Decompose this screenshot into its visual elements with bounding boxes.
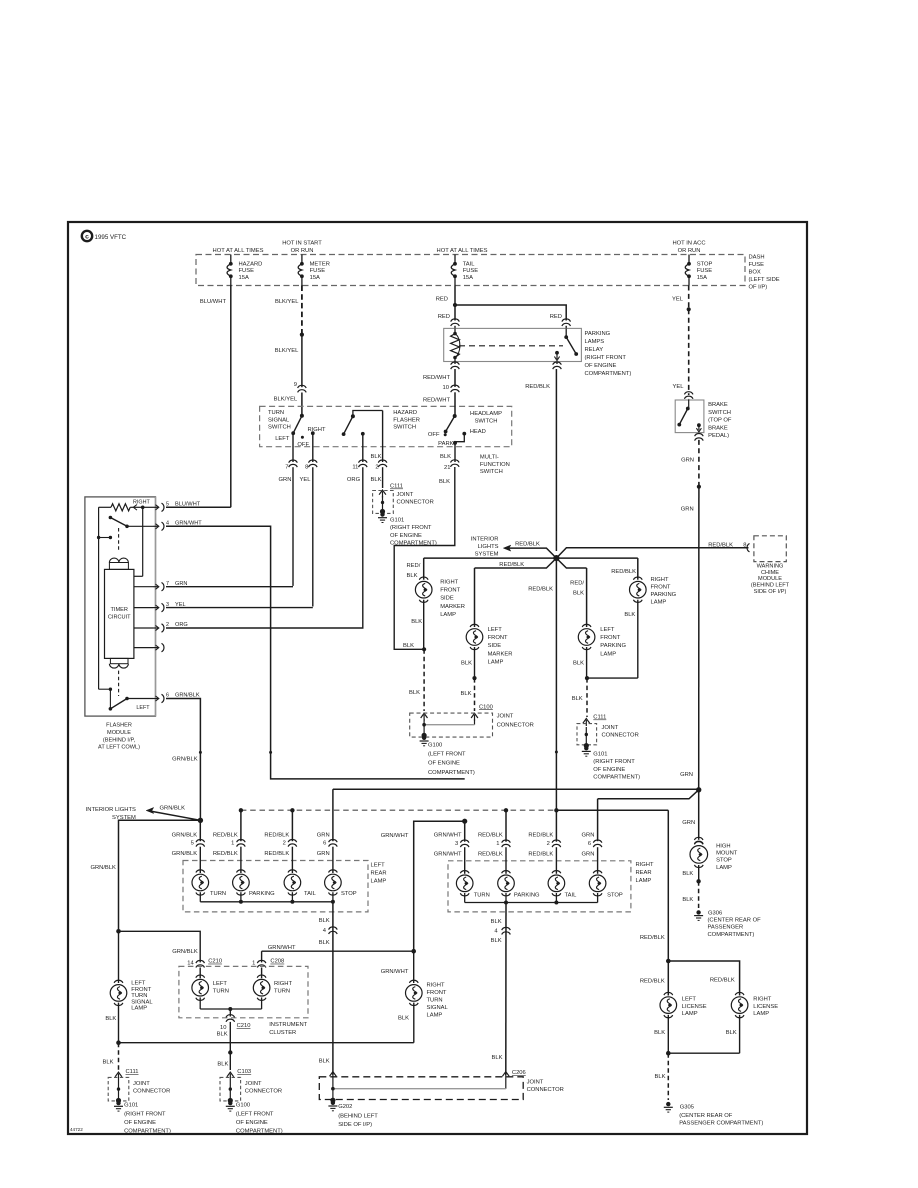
svg-text:LEFT: LEFT	[136, 705, 150, 711]
svg-text:FRONT: FRONT	[600, 635, 620, 641]
svg-text:GRN: GRN	[681, 458, 694, 464]
svg-text:BLK: BLK	[439, 479, 450, 485]
svg-text:CONNECTOR: CONNECTOR	[602, 733, 639, 739]
svg-text:FRONT: FRONT	[427, 990, 447, 996]
svg-text:BLK: BLK	[371, 454, 382, 460]
svg-text:RIGHT: RIGHT	[753, 997, 771, 1003]
svg-text:RED/BLK: RED/BLK	[611, 569, 636, 575]
svg-text:BLK: BLK	[491, 938, 502, 944]
svg-text:CLUSTER: CLUSTER	[269, 1030, 296, 1036]
svg-text:JOINT: JOINT	[497, 714, 514, 720]
svg-text:TURN: TURN	[131, 993, 147, 999]
svg-text:GRN/BLK: GRN/BLK	[172, 949, 198, 955]
svg-text:6: 6	[588, 841, 591, 847]
svg-text:TURN: TURN	[210, 891, 226, 897]
svg-text:LAMP: LAMP	[440, 612, 456, 618]
svg-text:LEFT: LEFT	[600, 627, 615, 633]
svg-text:FLASHER: FLASHER	[393, 417, 420, 423]
svg-text:GRN/WHT: GRN/WHT	[381, 969, 409, 975]
svg-text:LAMP: LAMP	[636, 878, 652, 884]
svg-text:BLK: BLK	[573, 661, 584, 667]
svg-text:BLK: BLK	[573, 591, 584, 597]
svg-text:BLK: BLK	[319, 918, 330, 924]
svg-text:MODULE: MODULE	[107, 730, 131, 736]
svg-text:SIGNAL: SIGNAL	[268, 417, 290, 423]
svg-text:BOX: BOX	[749, 270, 761, 276]
svg-text:TAIL: TAIL	[565, 893, 578, 899]
svg-text:(LEFT FRONT: (LEFT FRONT	[236, 1112, 274, 1118]
svg-text:JOINT: JOINT	[245, 1081, 262, 1087]
svg-text:BLK/YEL: BLK/YEL	[275, 299, 299, 305]
svg-text:RED/BLK: RED/BLK	[640, 935, 665, 941]
svg-text:FUSE: FUSE	[239, 268, 255, 274]
svg-text:RED/BLK: RED/BLK	[478, 833, 503, 839]
svg-text:LAMP: LAMP	[600, 651, 616, 657]
svg-text:G100: G100	[236, 1102, 250, 1108]
svg-text:LAMP: LAMP	[488, 659, 504, 665]
svg-text:STOP: STOP	[341, 891, 357, 897]
svg-text:GRN/BLK: GRN/BLK	[90, 865, 116, 871]
svg-text:RED/BLK: RED/BLK	[528, 833, 553, 839]
svg-text:CIRCUIT: CIRCUIT	[108, 614, 131, 620]
svg-text:RED: RED	[438, 314, 450, 320]
svg-text:15A: 15A	[697, 275, 707, 281]
svg-text:GRN/BLK: GRN/BLK	[172, 851, 198, 857]
svg-text:LAMP: LAMP	[427, 1013, 443, 1019]
svg-text:TURN: TURN	[268, 410, 284, 416]
svg-text:YEL: YEL	[672, 297, 684, 303]
svg-text:LEFT: LEFT	[213, 981, 228, 987]
svg-text:TAIL: TAIL	[304, 891, 317, 897]
svg-text:(BEHIND LEFT: (BEHIND LEFT	[338, 1114, 378, 1120]
svg-text:RIGHT: RIGHT	[274, 981, 292, 987]
svg-text:G101: G101	[593, 752, 607, 758]
svg-text:SIDE: SIDE	[488, 643, 502, 649]
svg-text:2: 2	[547, 841, 550, 847]
svg-text:(CENTER REAR OF: (CENTER REAR OF	[679, 1113, 733, 1119]
svg-text:BLK: BLK	[492, 1055, 503, 1061]
svg-text:LICENSE: LICENSE	[753, 1004, 778, 1010]
svg-text:BLK: BLK	[407, 573, 418, 579]
svg-text:RED: RED	[550, 314, 562, 320]
svg-text:7: 7	[285, 465, 288, 471]
svg-text:(LEFT SIDE: (LEFT SIDE	[749, 277, 780, 283]
svg-text:BLK: BLK	[572, 696, 583, 702]
svg-text:1: 1	[252, 960, 255, 966]
svg-text:C103: C103	[237, 1069, 251, 1075]
svg-text:RIGHT: RIGHT	[427, 983, 445, 989]
svg-text:CONNECTOR: CONNECTOR	[397, 500, 434, 506]
svg-text:GRN/WHT: GRN/WHT	[434, 852, 462, 858]
svg-text:1: 1	[231, 841, 234, 847]
svg-text:BLK: BLK	[103, 1059, 114, 1065]
svg-text:CONNECTOR: CONNECTOR	[245, 1088, 282, 1094]
svg-text:11: 11	[352, 465, 358, 471]
svg-text:BLU/WHT: BLU/WHT	[200, 299, 227, 305]
svg-text:COMPARTMENT): COMPARTMENT)	[428, 770, 475, 776]
svg-text:OFF: OFF	[428, 432, 440, 438]
svg-text:HOT AT ALL TIMES: HOT AT ALL TIMES	[437, 248, 488, 254]
svg-text:LAMP: LAMP	[131, 1006, 147, 1012]
svg-text:HOT AT ALL TIMES: HOT AT ALL TIMES	[213, 248, 264, 254]
svg-text:PARKING: PARKING	[651, 592, 677, 598]
svg-text:RED/: RED/	[407, 563, 421, 569]
svg-text:8: 8	[305, 465, 308, 471]
svg-text:LEFT: LEFT	[488, 627, 503, 633]
svg-text:SWITCH: SWITCH	[268, 425, 291, 431]
svg-text:LEFT: LEFT	[275, 436, 290, 442]
svg-text:G101: G101	[390, 518, 404, 524]
svg-text:FLASHER: FLASHER	[106, 723, 132, 729]
svg-text:RED/BLK: RED/BLK	[525, 384, 550, 390]
svg-text:HAZARD: HAZARD	[239, 261, 263, 267]
svg-text:JOINT: JOINT	[602, 725, 619, 731]
svg-text:METER: METER	[310, 261, 330, 267]
svg-text:BLK: BLK	[398, 1016, 409, 1022]
svg-text:RED/BLK: RED/BLK	[528, 587, 553, 593]
svg-text:BLK: BLK	[654, 1030, 665, 1036]
svg-text:BLK: BLK	[319, 940, 330, 946]
svg-text:GRN/BLK: GRN/BLK	[160, 806, 186, 812]
svg-text:FUSE: FUSE	[463, 268, 479, 274]
svg-text:15A: 15A	[310, 275, 320, 281]
svg-text:RED/BLK: RED/BLK	[264, 832, 289, 838]
svg-text:21: 21	[444, 465, 450, 471]
svg-text:14: 14	[187, 960, 194, 966]
svg-text:BLK/YEL: BLK/YEL	[275, 348, 299, 354]
svg-text:HOT IN START: HOT IN START	[282, 241, 322, 247]
svg-text:LAMPS: LAMPS	[585, 339, 605, 345]
svg-text:10: 10	[443, 385, 449, 391]
svg-text:STOP: STOP	[697, 261, 713, 267]
svg-text:BLK: BLK	[411, 619, 422, 625]
svg-text:TURN: TURN	[427, 998, 443, 1004]
svg-text:1995 VFTC: 1995 VFTC	[95, 234, 127, 241]
svg-text:BLK: BLK	[105, 1016, 116, 1022]
svg-text:FRONT: FRONT	[440, 588, 460, 594]
svg-text:OF ENGINE: OF ENGINE	[236, 1120, 268, 1126]
svg-text:(RIGHT FRONT: (RIGHT FRONT	[585, 355, 627, 361]
svg-text:JOINT: JOINT	[133, 1081, 150, 1087]
svg-text:BLK: BLK	[682, 897, 693, 903]
svg-text:BLK: BLK	[319, 1058, 330, 1064]
svg-text:FUSE: FUSE	[310, 268, 326, 274]
svg-text:FRONT: FRONT	[651, 585, 671, 591]
svg-text:SWITCH: SWITCH	[480, 469, 503, 475]
svg-text:BLK: BLK	[461, 661, 472, 667]
svg-text:RIGHT: RIGHT	[636, 862, 654, 868]
svg-text:SWITCH: SWITCH	[708, 410, 731, 416]
svg-text:OR RUN: OR RUN	[291, 248, 314, 254]
svg-text:GRN/WHT: GRN/WHT	[434, 833, 462, 839]
svg-text:TURN: TURN	[213, 988, 229, 994]
svg-text:FRONT: FRONT	[131, 987, 151, 993]
svg-text:OR RUN: OR RUN	[678, 248, 701, 254]
svg-text:RED/WHT: RED/WHT	[423, 375, 451, 381]
svg-text:2: 2	[375, 465, 378, 471]
svg-text:9: 9	[294, 382, 297, 388]
svg-text:GRN: GRN	[682, 820, 695, 826]
svg-text:BLK: BLK	[440, 454, 451, 460]
svg-text:FUNCTION: FUNCTION	[480, 462, 510, 468]
svg-text:MULTI-: MULTI-	[480, 454, 499, 460]
svg-text:BLK: BLK	[624, 612, 635, 618]
svg-text:BRAKE: BRAKE	[708, 425, 728, 431]
svg-text:TURN: TURN	[474, 893, 490, 899]
svg-text:YEL: YEL	[673, 384, 685, 390]
svg-text:INTERIOR LIGHTS: INTERIOR LIGHTS	[86, 807, 136, 813]
svg-text:2: 2	[283, 841, 286, 847]
svg-text:PEDAL): PEDAL)	[708, 433, 729, 439]
svg-text:COMPARTMENT): COMPARTMENT)	[390, 541, 437, 547]
svg-text:CONNECTOR: CONNECTOR	[527, 1087, 564, 1093]
svg-text:(RIGHT FRONT: (RIGHT FRONT	[593, 759, 635, 765]
svg-text:RED/BLK: RED/BLK	[708, 543, 733, 549]
svg-text:REAR: REAR	[636, 870, 652, 876]
svg-text:OF ENGINE: OF ENGINE	[390, 533, 422, 539]
svg-text:G100: G100	[428, 743, 442, 749]
svg-text:OF I/P): OF I/P)	[749, 285, 768, 291]
svg-text:15A: 15A	[239, 275, 249, 281]
svg-text:LEFT: LEFT	[131, 981, 146, 987]
svg-text:RED: RED	[436, 297, 448, 303]
svg-text:GRN: GRN	[317, 832, 330, 838]
svg-text:SIDE OF I/P): SIDE OF I/P)	[338, 1122, 372, 1128]
svg-text:GRN: GRN	[681, 507, 694, 513]
svg-text:LICENSE: LICENSE	[682, 1004, 707, 1010]
svg-text:FUSE: FUSE	[749, 262, 765, 268]
svg-text:1: 1	[496, 841, 499, 847]
svg-text:C111: C111	[593, 715, 606, 721]
svg-text:COMPARTMENT): COMPARTMENT)	[124, 1129, 171, 1135]
svg-text:MODULE: MODULE	[758, 576, 782, 582]
svg-text:DASH: DASH	[749, 255, 765, 261]
svg-text:STOP: STOP	[716, 858, 732, 864]
svg-text:RED/WHT: RED/WHT	[423, 398, 451, 404]
svg-text:C100: C100	[479, 704, 493, 710]
svg-text:PARK: PARK	[438, 441, 453, 447]
svg-text:BLK: BLK	[655, 1074, 666, 1080]
svg-text:SIGNAL: SIGNAL	[427, 1005, 449, 1011]
svg-text:RIGHT: RIGHT	[133, 500, 150, 506]
svg-text:8: 8	[743, 543, 746, 549]
svg-text:OF ENGINE: OF ENGINE	[593, 767, 625, 773]
svg-text:GRN: GRN	[582, 852, 595, 858]
svg-text:(CENTER REAR OF: (CENTER REAR OF	[708, 917, 762, 923]
svg-text:LAMP: LAMP	[753, 1011, 769, 1017]
svg-text:INSTRUMENT: INSTRUMENT	[269, 1022, 307, 1028]
svg-text:BLK: BLK	[403, 643, 414, 649]
svg-text:RED/BLK: RED/BLK	[213, 832, 238, 838]
svg-text:YEL: YEL	[300, 477, 312, 483]
svg-text:(TOP OF: (TOP OF	[708, 418, 732, 424]
svg-text:CONNECTOR: CONNECTOR	[497, 723, 534, 729]
svg-text:INTERIOR: INTERIOR	[471, 537, 499, 543]
svg-text:BRAKE: BRAKE	[708, 402, 728, 408]
svg-text:PARKING: PARKING	[249, 891, 275, 897]
svg-text:GRN: GRN	[317, 851, 330, 857]
svg-text:COMPARTMENT): COMPARTMENT)	[236, 1129, 283, 1135]
svg-text:GRN/BLK: GRN/BLK	[172, 832, 198, 838]
svg-text:44722: 44722	[70, 1127, 83, 1132]
svg-text:JOINT: JOINT	[397, 492, 414, 498]
svg-text:C111: C111	[126, 1069, 139, 1075]
svg-text:RED/BLK: RED/BLK	[264, 851, 289, 857]
svg-text:RED/BLK: RED/BLK	[515, 542, 540, 548]
svg-text:SWITCH: SWITCH	[475, 419, 498, 425]
svg-text:ORG: ORG	[347, 477, 361, 483]
svg-text:HOT IN ACC: HOT IN ACC	[672, 241, 705, 247]
svg-text:WARNING: WARNING	[757, 564, 784, 570]
svg-text:REAR: REAR	[371, 871, 387, 877]
svg-text:5: 5	[191, 841, 194, 847]
svg-text:LAMP: LAMP	[682, 1011, 698, 1017]
svg-text:LAMP: LAMP	[651, 600, 667, 606]
svg-text:HIGH: HIGH	[716, 844, 731, 850]
svg-text:(BEHIND I/P,: (BEHIND I/P,	[103, 737, 136, 743]
svg-text:CHIME: CHIME	[761, 570, 779, 576]
svg-text:BLK: BLK	[491, 919, 502, 925]
svg-text:GRN: GRN	[582, 833, 595, 839]
svg-text:PARKING: PARKING	[585, 331, 611, 337]
svg-text:G306: G306	[708, 911, 722, 917]
svg-text:C206: C206	[512, 1070, 526, 1076]
svg-text:(RIGHT FRONT: (RIGHT FRONT	[390, 525, 432, 531]
svg-text:C208: C208	[270, 959, 284, 965]
svg-text:(BEHIND LEFT: (BEHIND LEFT	[751, 583, 790, 589]
svg-text:COMPARTMENT): COMPARTMENT)	[585, 371, 632, 377]
svg-text:COMPARTMENT): COMPARTMENT)	[593, 775, 640, 781]
svg-text:OF ENGINE: OF ENGINE	[428, 761, 460, 767]
svg-text:C210: C210	[208, 959, 222, 965]
svg-text:OF ENGINE: OF ENGINE	[124, 1120, 156, 1126]
svg-text:3: 3	[455, 841, 458, 847]
svg-text:TAIL: TAIL	[463, 261, 476, 267]
svg-text:SIDE OF I/P): SIDE OF I/P)	[754, 589, 787, 595]
svg-text:FUSE: FUSE	[697, 268, 713, 274]
svg-text:HEADLAMP: HEADLAMP	[470, 411, 502, 417]
svg-text:GRN/WHT: GRN/WHT	[268, 945, 296, 951]
svg-text:PARKING: PARKING	[600, 643, 626, 649]
svg-text:BLK: BLK	[371, 477, 382, 483]
svg-text:BLK: BLK	[682, 871, 693, 877]
svg-text:JOINT: JOINT	[527, 1080, 544, 1086]
svg-text:RED/BLK: RED/BLK	[499, 562, 524, 568]
svg-text:RED/BLK: RED/BLK	[213, 851, 238, 857]
svg-text:PASSENGER: PASSENGER	[708, 925, 744, 931]
svg-text:10: 10	[220, 1025, 226, 1031]
svg-text:RIGHT: RIGHT	[440, 580, 458, 586]
svg-text:STOP: STOP	[607, 893, 623, 899]
svg-text:GRN/WHT: GRN/WHT	[381, 833, 409, 839]
svg-text:RIGHT: RIGHT	[651, 577, 669, 583]
svg-text:HAZARD: HAZARD	[393, 410, 417, 416]
svg-text:RED/BLK: RED/BLK	[478, 852, 503, 858]
svg-text:GRN: GRN	[279, 477, 292, 483]
svg-text:LEFT: LEFT	[682, 997, 697, 1003]
svg-text:G305: G305	[680, 1105, 694, 1111]
svg-text:LIGHTS: LIGHTS	[478, 544, 499, 550]
svg-text:15A: 15A	[463, 275, 473, 281]
svg-text:HEAD: HEAD	[470, 429, 486, 435]
svg-text:TIMER: TIMER	[110, 607, 127, 613]
svg-text:CONNECTOR: CONNECTOR	[133, 1088, 170, 1094]
svg-text:RED/BLK: RED/BLK	[710, 978, 735, 984]
svg-text:(RIGHT FRONT: (RIGHT FRONT	[124, 1112, 166, 1118]
svg-text:RELAY: RELAY	[585, 347, 604, 353]
svg-text:PARKING: PARKING	[514, 893, 540, 899]
svg-text:FRONT: FRONT	[488, 635, 508, 641]
svg-text:SIGNAL: SIGNAL	[131, 999, 153, 1005]
svg-text:c: c	[85, 234, 89, 241]
svg-text:MARKER: MARKER	[488, 651, 513, 657]
svg-text:PASSENGER COMPARTMENT): PASSENGER COMPARTMENT)	[679, 1121, 763, 1127]
svg-text:GRN: GRN	[680, 772, 693, 778]
svg-text:SIDE: SIDE	[440, 596, 454, 602]
svg-text:BLK: BLK	[217, 1032, 228, 1038]
svg-text:G101: G101	[124, 1102, 138, 1108]
svg-text:RIGHT: RIGHT	[308, 427, 326, 433]
svg-text:SWITCH: SWITCH	[393, 425, 416, 431]
svg-text:AT LEFT COWL): AT LEFT COWL)	[98, 745, 140, 751]
svg-text:OF ENGINE: OF ENGINE	[585, 363, 617, 369]
svg-text:RED/: RED/	[570, 581, 584, 587]
svg-text:BLK: BLK	[409, 690, 420, 696]
svg-text:BLK: BLK	[217, 1062, 228, 1068]
svg-text:C111: C111	[390, 484, 403, 490]
svg-text:COMPARTMENT): COMPARTMENT)	[708, 932, 755, 938]
svg-text:C210: C210	[237, 1023, 251, 1029]
svg-text:OFF: OFF	[297, 442, 309, 448]
svg-text:6: 6	[323, 841, 326, 847]
svg-text:MOUNT: MOUNT	[716, 851, 738, 857]
svg-text:TURN: TURN	[274, 988, 290, 994]
svg-text:BLK: BLK	[461, 691, 472, 697]
svg-text:BLK/YEL: BLK/YEL	[274, 397, 298, 403]
svg-text:RED/BLK: RED/BLK	[640, 979, 665, 985]
svg-text:G202: G202	[338, 1104, 352, 1110]
svg-text:SYSTEM: SYSTEM	[475, 552, 499, 558]
svg-text:BLK: BLK	[726, 1030, 737, 1036]
svg-text:(LEFT FRONT: (LEFT FRONT	[428, 752, 466, 758]
svg-text:LAMP: LAMP	[371, 879, 387, 885]
svg-text:RED/BLK: RED/BLK	[528, 852, 553, 858]
svg-text:LEFT: LEFT	[371, 862, 386, 868]
svg-text:MARKER: MARKER	[440, 604, 465, 610]
svg-text:LAMP: LAMP	[716, 865, 732, 871]
svg-text:GRN/BLK: GRN/BLK	[172, 757, 198, 763]
